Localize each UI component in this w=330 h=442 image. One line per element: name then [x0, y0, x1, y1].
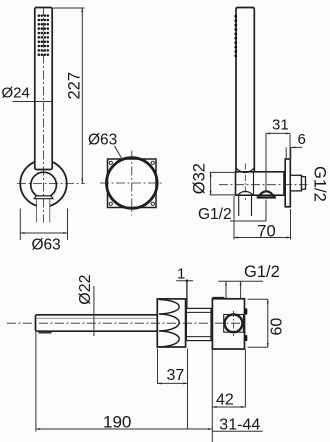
svg-text:190: 190: [103, 412, 131, 431]
svg-text:60: 60: [268, 318, 285, 336]
svg-text:37: 37: [167, 367, 185, 384]
svg-text:G1/2: G1/2: [311, 166, 329, 202]
svg-text:227: 227: [65, 72, 83, 100]
svg-text:G1/2: G1/2: [244, 263, 280, 281]
svg-text:Ø24: Ø24: [2, 85, 30, 102]
svg-text:6: 6: [298, 131, 306, 148]
svg-text:G1/2: G1/2: [198, 206, 232, 223]
svg-text:31-44: 31-44: [219, 417, 260, 434]
svg-text:70: 70: [257, 223, 275, 241]
svg-text:Ø63: Ø63: [32, 237, 61, 254]
svg-text:42: 42: [216, 392, 234, 409]
svg-text:Ø32: Ø32: [191, 163, 209, 194]
svg-text:1: 1: [177, 266, 185, 283]
svg-text:31: 31: [272, 117, 289, 134]
svg-text:Ø22: Ø22: [77, 274, 94, 304]
svg-text:Ø63: Ø63: [88, 132, 117, 149]
